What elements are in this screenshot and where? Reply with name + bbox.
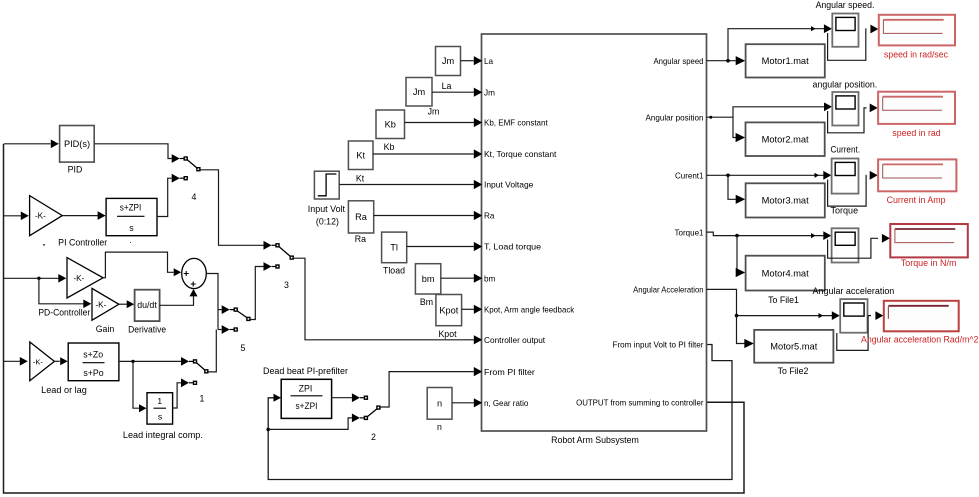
wire Torque1 port to Motor4 and scope xyxy=(707,232,825,236)
gain PI Controller -K- xyxy=(30,196,108,248)
svg-text:Kpot, Arm angle feedback: Kpot, Arm angle feedback xyxy=(484,306,575,315)
svg-text:5: 5 xyxy=(241,343,246,353)
svg-text:Angular acceleration Rad/m^2: Angular acceleration Rad/m^2 xyxy=(861,335,979,345)
block transfer function (s+Zo)/(s+Po) xyxy=(68,343,119,381)
svg-text:Lead integral comp.: Lead integral comp. xyxy=(123,430,203,440)
block Dead beat PI-prefilter ZPI/(s+ZPI) xyxy=(263,366,348,418)
svg-text:Ra: Ra xyxy=(484,212,495,221)
source block Input Volt (0:12) step signal xyxy=(308,171,346,226)
svg-text:Input Voltage: Input Voltage xyxy=(484,181,534,190)
svg-text:Motor1.mat: Motor1.mat xyxy=(762,56,809,66)
svg-text:.: . xyxy=(129,235,131,245)
svg-text:1: 1 xyxy=(157,396,162,406)
svg-text:s+ZPI: s+ZPI xyxy=(296,401,318,411)
svg-text:-K-: -K- xyxy=(73,274,84,283)
wire bm to subsystem port xyxy=(441,277,474,279)
input port n, Gear ratio xyxy=(474,398,529,408)
wire Ra to subsystem port xyxy=(374,215,474,217)
svg-text:Robot Arm Subsystem: Robot Arm Subsystem xyxy=(551,435,639,445)
svg-text:-K-: -K- xyxy=(95,300,106,309)
display Current in Amp xyxy=(878,159,956,205)
svg-text:-K-: -K- xyxy=(35,212,46,221)
wire switch 5 output up to switch 3 input 2 xyxy=(250,267,263,320)
gain PD-Controller -K- xyxy=(38,258,103,318)
svg-text:Ra: Ra xyxy=(355,212,368,222)
svg-text:speed in rad: speed in rad xyxy=(892,128,941,138)
wire around scope 4 to display Torque in N/m xyxy=(828,238,878,258)
input port bm xyxy=(474,274,496,284)
svg-text:du/dt: du/dt xyxy=(137,300,157,310)
wire Angular speed port to Motor1 and scope xyxy=(707,60,736,62)
wire switch 2 output to From PI filter port xyxy=(380,372,474,407)
input port Controller output xyxy=(474,335,546,345)
svg-text:n, Gear ratio: n, Gear ratio xyxy=(484,399,529,408)
wire 1/s output up to switch 1 input 2 xyxy=(173,383,181,408)
svg-text:T, Load torque: T, Load torque xyxy=(484,243,542,252)
wire Kb to subsystem port xyxy=(405,122,474,124)
svg-text:PID: PID xyxy=(68,165,83,175)
gain Lead or lag -K- xyxy=(30,342,87,395)
gain Gain -K- xyxy=(92,288,119,333)
svg-text:Derivative: Derivative xyxy=(128,325,166,335)
block PID controller PID(s) xyxy=(60,126,95,175)
wire n gear ratio to subsystem port xyxy=(452,402,474,404)
wire Kpot to subsystem port xyxy=(462,308,474,310)
svg-text:Dead beat PI-prefilter: Dead beat PI-prefilter xyxy=(263,366,348,376)
To File block Motor2.mat xyxy=(746,122,825,156)
block integrator 1/s Lead integral comp. xyxy=(123,393,203,440)
wire Gain output to Derivative xyxy=(119,303,127,305)
svg-text:La: La xyxy=(442,81,452,91)
svg-text:Curent1: Curent1 xyxy=(675,172,704,181)
svg-text:4: 4 xyxy=(192,192,197,202)
input port Jm xyxy=(474,88,495,98)
svg-text:speed in rad/sec: speed in rad/sec xyxy=(884,50,948,60)
svg-text:3: 3 xyxy=(284,280,289,290)
display speed in rad/sec xyxy=(879,15,955,60)
scope Angular speed. xyxy=(816,0,875,47)
To File block Motor3.mat xyxy=(746,183,825,217)
wire Lead gain output to s+Zo block xyxy=(54,360,59,362)
scope angular position. xyxy=(813,79,878,125)
subsystem Robot Arm Subsystem xyxy=(482,34,707,445)
wire PD-Controller output over Gain row into sum xyxy=(103,252,174,278)
svg-text:s+Po: s+Po xyxy=(83,368,103,378)
wire From input Volt feedback around bottom to ZPI input xyxy=(268,345,732,480)
svg-text:Angular speed: Angular speed xyxy=(654,57,704,66)
constant block Jm xyxy=(406,78,439,117)
wire around scope 5 to display Angular acceleration Rad/m^2 xyxy=(837,316,871,351)
svg-text:To File2: To File2 xyxy=(778,366,809,376)
sum junction circle xyxy=(182,258,207,288)
input port Kt, Torque constant xyxy=(474,149,557,159)
svg-text:Bm: Bm xyxy=(420,297,433,307)
wire La (value Jm) to subsystem port xyxy=(461,60,474,62)
svg-text:n: n xyxy=(437,422,442,432)
wire s+ZPI output to switch 4 input 2 xyxy=(157,178,172,216)
wire Jm to subsystem port xyxy=(432,91,474,93)
wire switch 3 output to Controller output port xyxy=(294,258,474,340)
input port Kb, EMF constant xyxy=(474,118,549,128)
svg-text:Kb, EMF constant: Kb, EMF constant xyxy=(484,119,548,128)
svg-text:Gain: Gain xyxy=(96,324,115,334)
input port Input Voltage xyxy=(474,180,534,190)
svg-text:Angular position: Angular position xyxy=(646,113,704,122)
svg-text:From PI filter: From PI filter xyxy=(484,368,535,377)
svg-text:To File1: To File1 xyxy=(768,295,799,305)
block transfer function (s+ZPI)/s xyxy=(106,198,157,235)
switch 3 controller select xyxy=(264,241,294,290)
wire Input Volt to subsystem port xyxy=(339,184,474,186)
svg-text:Jm: Jm xyxy=(413,87,426,97)
wire trunk branch to PID xyxy=(4,143,51,145)
To File block Motor5.mat xyxy=(754,330,833,376)
constant block Kt xyxy=(348,141,373,184)
To File block Motor1.mat xyxy=(746,44,825,77)
svg-text:Kpot: Kpot xyxy=(439,305,458,315)
input port Ra xyxy=(474,211,495,221)
constant block n gear ratio xyxy=(427,388,452,433)
svg-text:s+Zo: s+Zo xyxy=(83,350,103,360)
wire PD branch down to Gain xyxy=(39,278,84,304)
block Derivative du/dt xyxy=(128,290,166,335)
switch 2 prefilter bypass select xyxy=(352,393,381,442)
svg-text:Lead or lag: Lead or lag xyxy=(41,385,87,395)
svg-text:Kb: Kb xyxy=(385,120,396,130)
constant block Tl load torque xyxy=(382,232,407,275)
svg-text:angular position.: angular position. xyxy=(813,79,878,89)
svg-text:Tl: Tl xyxy=(390,243,398,253)
wire Derivative output up into sum bottom xyxy=(160,297,194,306)
svg-text:ZPI: ZPI xyxy=(299,384,313,394)
node junction lead-lag branch xyxy=(131,360,134,363)
input port Kpot, Arm angle feedback xyxy=(474,305,575,315)
wire PI gain output to s+ZPI block xyxy=(62,215,98,217)
svg-text:La: La xyxy=(484,57,494,66)
svg-text:(0:12): (0:12) xyxy=(316,217,339,227)
switch 5 select PD path / lead-lag path xyxy=(222,305,251,353)
svg-text:s: s xyxy=(129,223,134,233)
svg-text:Torque: Torque xyxy=(831,205,859,215)
wire trunk branch to Lead or lag xyxy=(4,360,20,362)
scope Angular acceleration xyxy=(813,286,895,333)
wire around scope 2 to display speed in rad xyxy=(828,108,867,133)
svg-text:n: n xyxy=(437,399,442,409)
wire branch to switch 2 input 2 xyxy=(268,418,352,430)
svg-text:s+ZPI: s+ZPI xyxy=(120,203,142,213)
input port T, Load torque xyxy=(474,242,542,252)
svg-text:Jm: Jm xyxy=(428,107,440,117)
wire Angular Acceleration port to Motor5 and scope xyxy=(707,289,833,315)
wire OUTPUT feedback loop from subsystem to left trunk xyxy=(4,144,745,493)
svg-text:OUTPUT from summing to control: OUTPUT from summing to controller xyxy=(576,399,704,408)
svg-text:2: 2 xyxy=(371,432,376,442)
svg-text:Motor5.mat: Motor5.mat xyxy=(770,342,817,352)
svg-text:Angular speed.: Angular speed. xyxy=(816,0,875,10)
display Angular acceleration Rad/m^2 xyxy=(861,301,979,345)
display Torque in N/m xyxy=(890,224,968,268)
svg-text:Angular Acceleration: Angular Acceleration xyxy=(633,286,704,295)
wire Tl load torque to subsystem port xyxy=(407,246,474,248)
svg-text:Torque1: Torque1 xyxy=(675,228,704,237)
svg-text:Motor2.mat: Motor2.mat xyxy=(762,135,809,145)
wire sum output down to switch 5 input 1 xyxy=(206,274,218,330)
svg-text:": " xyxy=(43,243,46,252)
svg-text:Kpot: Kpot xyxy=(438,329,457,339)
svg-text:Motor3.mat: Motor3.mat xyxy=(762,196,809,206)
scope Current. xyxy=(831,145,861,194)
svg-text:Kt, Torque constant: Kt, Torque constant xyxy=(484,150,557,159)
display speed in rad xyxy=(878,92,955,139)
svg-text:Ra: Ra xyxy=(355,234,366,244)
node junction on PD branch xyxy=(37,277,40,280)
constant block Kpot xyxy=(436,295,462,340)
switch 4 select PID / PI xyxy=(172,154,201,202)
svg-text:Jm: Jm xyxy=(442,56,455,66)
svg-text:Kt: Kt xyxy=(356,150,365,160)
wire trunk branch to PD-Controller xyxy=(4,277,59,279)
svg-text:PD-Controller: PD-Controller xyxy=(38,307,90,317)
switch 1 select lead-lag / integral xyxy=(181,357,209,404)
wire branch down into integrator 1/s xyxy=(133,361,139,408)
svg-text:Kt: Kt xyxy=(356,174,365,184)
svg-text:Input Volt: Input Volt xyxy=(308,204,346,214)
input port From PI filter xyxy=(474,367,535,377)
svg-text:Controller output: Controller output xyxy=(484,336,546,345)
svg-text:Jm: Jm xyxy=(484,88,495,97)
node junction on ZPI input feed xyxy=(266,428,270,432)
wire trunk branch to PI gain xyxy=(4,215,21,217)
input port La xyxy=(474,56,494,66)
svg-text:bm: bm xyxy=(422,274,435,284)
svg-text:Torque in N/m: Torque in N/m xyxy=(901,258,957,268)
constant block Kb xyxy=(376,110,405,152)
constant block Ra xyxy=(348,201,373,244)
svg-text:Angular acceleration: Angular acceleration xyxy=(813,286,895,296)
To File block Motor4.mat xyxy=(746,256,825,306)
svg-text:s: s xyxy=(158,412,162,422)
wire Curent1 port to Motor3 and scope xyxy=(707,174,825,176)
wire Kt to subsystem port xyxy=(373,153,474,155)
svg-text:From input Volt to PI filter: From input Volt to PI filter xyxy=(613,341,704,350)
svg-text:Current in Amp: Current in Amp xyxy=(887,195,946,205)
wire PID output to switch 4 input 1 xyxy=(94,144,172,159)
wire around scope 1 to display speed in rad/sec xyxy=(828,29,867,60)
svg-text:Motor4.mat: Motor4.mat xyxy=(762,268,809,278)
wire ZPI output to switch 2 input 1 xyxy=(332,397,352,399)
wire Angular position port to Motor2 and scope xyxy=(707,107,825,117)
wire lead-lag output to switch 1 input 1 xyxy=(119,360,181,362)
svg-text:Tload: Tload xyxy=(383,266,405,276)
svg-text:PI Controller: PI Controller xyxy=(58,238,107,248)
svg-text:Kb: Kb xyxy=(384,142,395,152)
wire switch 4 output to switch 3 input 1 xyxy=(200,170,263,246)
wire around scope 3 to display Current in Amp xyxy=(828,175,867,206)
svg-text:PID(s): PID(s) xyxy=(64,139,90,149)
constant block bm xyxy=(415,264,440,307)
svg-text:bm: bm xyxy=(484,274,496,283)
svg-text:-K-: -K- xyxy=(33,357,44,366)
svg-text:Current.: Current. xyxy=(831,145,861,155)
svg-text:1: 1 xyxy=(200,394,205,404)
scope Torque xyxy=(831,205,859,262)
constant block La (value Jm) xyxy=(436,47,461,92)
wire switch 1 output up to switch 5 input 2 xyxy=(208,330,216,372)
